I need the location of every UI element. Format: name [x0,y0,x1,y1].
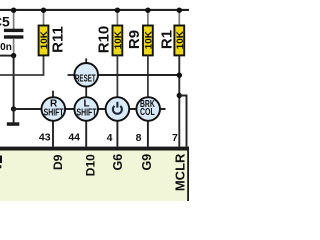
pushbutton S power [106,97,130,121]
wire R11 bend to left edge at y=75 [0,55,44,75]
wire C5 node down to row node [13,56,15,109]
wire R1 down to MCLR pin [178,55,180,146]
resistor R11 [39,10,50,55]
svg-text:R1: R1 [159,30,176,49]
wire RESET left stub [68,74,76,76]
node R1/reset junction [177,73,182,78]
svg-text:10K: 10K [175,31,186,49]
pushbutton S BRK/COL [136,97,160,121]
wire R9 to BRK COL button [147,55,149,97]
resistor R10 [113,10,124,55]
node stub junction [177,93,182,98]
resistor R9 [143,10,154,55]
svg-text:SHIFT: SHIFT [44,108,64,119]
resistor R1 [174,10,185,55]
capacitor C5 lead top [13,10,15,29]
node top rail R1 [177,8,182,13]
wire pin 43 [52,121,54,147]
pushbutton S R-SHIFT [42,97,66,121]
svg-text:G9: G9 [140,154,154,171]
wire button row rail [14,108,166,110]
svg-text:D10: D10 [84,154,98,176]
wire RESET bottom to L SHIFT [85,86,87,98]
wire left from C5 node [0,55,14,57]
svg-text:100n: 100n [0,42,12,53]
svg-text:C5: C5 [0,14,10,30]
svg-text:RESET: RESET [75,73,96,84]
wire stub right then down to IC edge [179,96,186,147]
svg-text:10K: 10K [39,31,50,49]
node row-rail junction [11,106,16,111]
wire top supply rail [0,9,189,11]
IC U1 block body [0,150,187,201]
capacitor C5 lead bottom [13,39,15,56]
svg-text:D9: D9 [51,154,65,170]
svg-text:7: 7 [172,132,178,144]
cut-off pin label fragment at left edge [0,156,2,164]
svg-text:10K: 10K [143,31,154,49]
IC U1 right border [187,147,189,201]
svg-text:SHIFT: SHIFT [77,108,97,119]
svg-text:G6: G6 [111,154,125,171]
svg-text:8: 8 [136,132,142,144]
svg-text:MCLR: MCLR [172,153,187,191]
node top rail R11 [41,8,46,13]
svg-text:COL: COL [140,107,155,118]
svg-text:R11: R11 [50,26,67,53]
wire RESET to R1 column [97,74,181,76]
pushbutton S L-SHIFT [74,97,98,121]
svg-text:43: 43 [39,132,51,144]
svg-text:R10: R10 [95,26,112,54]
wire pin 4 [116,121,118,147]
node top rail R9 [145,8,150,13]
pushbutton S RESET [74,63,98,87]
ground [7,122,19,126]
node top rail C5 [11,8,16,13]
svg-text:44: 44 [68,132,80,144]
wire pin 44 [85,121,87,147]
svg-text:R9: R9 [126,30,143,49]
svg-text:4: 4 [107,132,113,144]
wire RESET top stub [85,58,87,64]
capacitor C5 plates [4,29,24,32]
wire pin 8 [147,121,149,147]
svg-text:10K: 10K [113,31,124,49]
wire R SHIFT top stub [52,91,54,98]
IC U1 top border [0,147,189,151]
node C5/gnd junction [11,53,16,58]
wire R10 to power button [116,55,118,97]
node top rail R10 [115,8,120,13]
wire down to ground [13,109,15,123]
